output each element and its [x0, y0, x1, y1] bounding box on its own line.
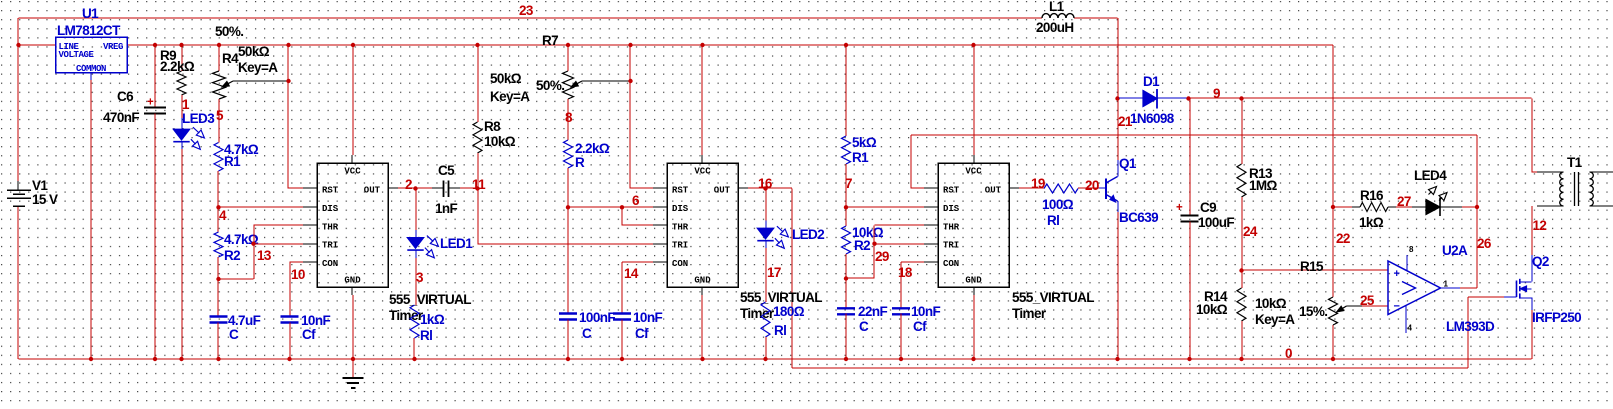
wire net 27 — [1396, 206, 1412, 208]
svg-text:22nF: 22nF — [858, 304, 887, 319]
junction at (1188.5,98.5) — [1186, 96, 1190, 100]
net 3 label — [416, 270, 424, 285]
svg-text:U2A: U2A — [1442, 243, 1468, 258]
svg-text:20: 20 — [1085, 178, 1099, 193]
wire R14 bottom — [1241, 321, 1243, 359]
net 7 label — [845, 176, 852, 191]
svg-text:TRI: TRI — [672, 241, 688, 251]
svg-text:RST: RST — [943, 186, 960, 196]
net 25 label — [1360, 293, 1375, 308]
svg-text:OUT: OUT — [364, 186, 381, 196]
label IRFP250 — [1532, 310, 1581, 325]
svg-text:10nF: 10nF — [633, 310, 662, 325]
label 555_VIRTUAL #2 — [740, 290, 822, 321]
svg-text:2.2kΩ: 2.2kΩ — [575, 141, 610, 156]
junction at (622,359) — [620, 357, 624, 361]
label 50% R4 — [215, 24, 243, 39]
net 16 label — [758, 176, 773, 191]
label U1 — [82, 6, 99, 21]
svg-text:−: − — [1394, 301, 1400, 313]
svg-text:50kΩ: 50kΩ — [238, 44, 270, 59]
junction at (630.5,45) — [628, 43, 632, 47]
svg-text:5: 5 — [216, 108, 224, 123]
svg-text:Timer: Timer — [1012, 306, 1047, 321]
wire R14 top — [1241, 271, 1243, 289]
svg-text:LM7812CT: LM7812CT — [57, 23, 121, 38]
svg-text:VCC: VCC — [694, 167, 711, 177]
resistor R2 4.7kOhm — [214, 232, 259, 263]
op 555 timer box #2 — [653, 155, 750, 295]
junction at (630.5,81) — [628, 79, 632, 83]
svg-text:R: R — [575, 155, 585, 170]
potentiometer R7 50k — [563, 71, 631, 99]
svg-text:TRI: TRI — [322, 241, 338, 251]
svg-text:U1: U1 — [82, 6, 99, 21]
net 19 label — [1031, 176, 1045, 191]
svg-text:100Ω: 100Ω — [1042, 197, 1074, 212]
wire R2 bottom net 13 — [217, 257, 219, 279]
wire bottom rail right riser to Q2 source — [1531, 310, 1533, 359]
svg-text:100uF: 100uF — [1198, 215, 1234, 230]
svg-text:Cf: Cf — [635, 326, 649, 341]
wire net 9 down to T1 — [1531, 99, 1533, 173]
capacitor C 4.7uF — [210, 313, 261, 342]
svg-text:Cf: Cf — [913, 319, 927, 334]
junction at (218.5,359) — [216, 357, 220, 361]
LED2 — [757, 221, 788, 249]
svg-text:10kΩ: 10kΩ — [484, 134, 516, 149]
svg-text:TRI: TRI — [943, 241, 959, 251]
junction at (1477,207) — [1475, 205, 1479, 209]
label LED3 — [182, 111, 215, 126]
capacitor Cf 10nF #2 — [613, 310, 662, 341]
svg-text:180Ω: 180Ω — [773, 304, 805, 319]
net 21 label — [1118, 114, 1133, 129]
svg-text:R15: R15 — [1300, 259, 1324, 274]
wire CON1 route net 10 — [290, 262, 318, 317]
wire +V rail y45 segment to U1 — [19, 44, 56, 46]
svg-text:Rl: Rl — [1047, 213, 1059, 228]
wire Rl to rail — [413, 338, 415, 359]
wire R8 bottom to net 11 — [477, 153, 479, 189]
svg-text:BC639: BC639 — [1119, 210, 1158, 225]
net 26 label — [1477, 236, 1492, 251]
svg-text:4.7uF: 4.7uF — [228, 313, 261, 328]
svg-text:50%.: 50%. — [536, 78, 564, 93]
capacitor C5 1nF — [432, 163, 460, 216]
svg-text:50kΩ: 50kΩ — [490, 71, 522, 86]
wire VCC2 to rail — [701, 45, 703, 155]
svg-text:Cf: Cf — [302, 327, 316, 342]
wire DIS1 horizontal net 4 — [219, 206, 318, 208]
wire net 5 R4 to R1 — [218, 99, 220, 143]
svg-text:15 V: 15 V — [32, 192, 58, 207]
wire C 22nF top — [845, 279, 847, 309]
svg-text:2: 2 — [405, 177, 412, 192]
wire net 9 line — [1189, 97, 1532, 99]
wire top rail net 23 (right segment after L1) — [1074, 17, 1118, 19]
wire top rail net 23 (left segment) — [19, 17, 1043, 19]
svg-text:Rl: Rl — [420, 328, 432, 343]
resistor R2 10kOhm #3 — [842, 225, 884, 254]
wire R9 top — [181, 45, 183, 71]
net 1 label — [182, 97, 190, 112]
net 23 label — [519, 3, 534, 18]
label Q1 — [1119, 156, 1137, 171]
svg-text:9: 9 — [1213, 86, 1220, 101]
svg-text:OUT: OUT — [985, 186, 1002, 196]
net 11 label — [472, 177, 486, 192]
svg-text:200uH: 200uH — [1036, 20, 1074, 35]
svg-text:C: C — [229, 327, 239, 342]
wire gate riser x1468 — [1467, 297, 1469, 368]
svg-text:50%.: 50%. — [215, 24, 243, 39]
svg-text:CON: CON — [943, 259, 959, 269]
svg-text:10kΩ: 10kΩ — [1196, 302, 1228, 317]
label LED1 — [440, 236, 473, 251]
wire DIS2 horizontal net 6 — [568, 206, 667, 208]
svg-text:CON: CON — [322, 259, 338, 269]
svg-text:DIS: DIS — [943, 204, 960, 214]
svg-text:V1: V1 — [32, 178, 48, 193]
junction at (846,45) — [844, 43, 848, 47]
svg-text:L1: L1 — [1049, 0, 1065, 14]
resistor Rl 1kOhm #1 — [410, 305, 445, 343]
wire TRI3 horizontal — [875, 243, 939, 245]
junction at (846,359) — [844, 357, 848, 361]
wire CON2 route net 14 — [622, 262, 667, 314]
svg-text:10: 10 — [291, 267, 305, 282]
svg-text:R7: R7 — [542, 33, 558, 48]
net 20 label — [1085, 178, 1099, 193]
label BC639 — [1119, 210, 1158, 225]
resistor R1 5kOhm — [842, 135, 877, 165]
svg-text:Key=A: Key=A — [238, 60, 278, 75]
wire OUT3 net 19 — [1019, 187, 1044, 189]
wire VCC1 to rail — [352, 45, 354, 155]
svg-text:100nF: 100nF — [579, 310, 615, 325]
label U2A — [1442, 243, 1468, 258]
wire C6 top — [154, 45, 156, 108]
svg-text:LED4: LED4 — [1414, 168, 1447, 183]
wire R8 top — [477, 45, 479, 122]
svg-text:10nF: 10nF — [911, 304, 940, 319]
capacitor Cf 10nF — [281, 313, 331, 342]
wire RST3 route — [911, 135, 1477, 189]
svg-text:555_VIRTUAL: 555_VIRTUAL — [740, 290, 822, 305]
junction at (219,45) — [217, 43, 221, 47]
wire THR2 tie — [622, 207, 667, 225]
wire R13 top — [1241, 99, 1243, 165]
wire R4 wiper riser net to RST — [287, 45, 289, 189]
wire C9 top — [1189, 99, 1191, 216]
junction at (18.5,45) — [16, 43, 20, 47]
net 24 label — [1243, 224, 1258, 239]
svg-text:GND: GND — [965, 276, 982, 286]
svg-text:1kΩ: 1kΩ — [420, 312, 445, 327]
transistor Q2 IRFP250 — [1504, 255, 1532, 310]
junction at (1241.5,98.5) — [1239, 96, 1243, 100]
junction at (568,359) — [566, 357, 570, 361]
junction at (1241.5,270.5) — [1239, 268, 1243, 272]
label R15 — [1300, 259, 1324, 274]
junction at (568,45) — [566, 43, 570, 47]
net 27 label — [1397, 194, 1411, 209]
net 18 label — [898, 265, 913, 280]
junction at (846,207.3) — [844, 205, 848, 209]
net 2 label — [405, 177, 412, 192]
svg-text:4: 4 — [219, 208, 227, 223]
wire RST2 riser — [629, 45, 631, 189]
wire LED2 to Rl2 — [765, 248, 767, 302]
svg-text:23: 23 — [519, 3, 534, 18]
wire C 4.7uF bottom — [217, 323, 219, 360]
wire net 24 horizontal to opamp — [1242, 269, 1389, 271]
wire R15 wiper to opamp minus net 25 — [1362, 305, 1388, 307]
wire lower line y368 net gate — [792, 367, 1468, 369]
svg-text:6: 6 — [632, 193, 640, 208]
junction at (973.5,45) — [971, 43, 975, 47]
wire CON3 route net 18 — [901, 262, 938, 308]
wire C9 bottom — [1189, 222, 1191, 360]
svg-text:+: + — [1176, 202, 1183, 214]
capacitor C6 — [103, 89, 166, 125]
svg-text:10nF: 10nF — [301, 313, 330, 328]
wire C6 bottom — [154, 114, 156, 360]
label R7 values — [490, 71, 564, 104]
wire C 22nF bottom — [845, 314, 847, 360]
wire net22 to R16 — [1333, 206, 1352, 208]
battery V1 — [7, 178, 58, 207]
ground symbol — [343, 378, 364, 388]
junction at (702.5,45) — [700, 43, 704, 47]
svg-text:12: 12 — [1533, 218, 1547, 233]
wire net26 riser x1477 — [1476, 135, 1478, 288]
svg-text:VREG: VREG — [103, 42, 123, 52]
junction at (218.5,207.3) — [216, 205, 220, 209]
label LED4 — [1414, 168, 1447, 183]
svg-text:Q1: Q1 — [1119, 156, 1137, 171]
svg-text:DIS: DIS — [322, 204, 339, 214]
wire left vertical from V1 to bottom rail — [17, 207, 19, 360]
label Q2 — [1532, 254, 1549, 269]
svg-text:29: 29 — [875, 249, 889, 264]
junction at (181.5,359) — [179, 357, 183, 361]
junction at (353,45) — [351, 43, 355, 47]
svg-text:R8: R8 — [484, 119, 501, 134]
svg-text:R2: R2 — [224, 248, 240, 263]
wire T1 top lead — [1532, 171, 1538, 173]
wire C 100nF bottom — [567, 320, 569, 360]
label 555_VIRTUAL #1 — [389, 292, 471, 323]
svg-text:4: 4 — [1408, 324, 1413, 333]
svg-text:C6: C6 — [117, 89, 134, 104]
net 8 label — [565, 110, 573, 125]
wire opamp output net 26 — [1460, 287, 1477, 289]
svg-text:14: 14 — [624, 266, 639, 281]
net 9 label — [1213, 86, 1220, 101]
svg-text:8: 8 — [565, 110, 573, 125]
net 4 label — [219, 208, 227, 223]
svg-text:VOLTAGE: VOLTAGE — [59, 50, 95, 60]
label R7 — [542, 33, 558, 48]
svg-text:17: 17 — [767, 265, 781, 280]
net 6 label — [632, 193, 640, 208]
wire THR1 route net 13 — [219, 225, 318, 279]
wire RST2 horizontal — [631, 187, 668, 189]
svg-text:C9: C9 — [1200, 200, 1216, 215]
svg-text:2.2kΩ: 2.2kΩ — [160, 59, 195, 74]
svg-text:THR: THR — [943, 222, 960, 232]
svg-text:Q2: Q2 — [1532, 254, 1549, 269]
diode D1 1N6098 — [1119, 89, 1189, 109]
label LM393D — [1446, 319, 1495, 334]
LED1 — [407, 230, 438, 258]
capacitor C9 100uF — [1176, 200, 1234, 230]
junction at (901,359) — [899, 357, 903, 361]
wire R15 bottom to bottom rail — [1332, 325, 1334, 359]
svg-text:24: 24 — [1243, 224, 1258, 239]
resistor Rl 100Ohm — [1042, 184, 1078, 228]
label 555_VIRTUAL #3 — [1012, 290, 1094, 321]
svg-text:LM393D: LM393D — [1446, 319, 1495, 334]
junction at (1117.5,359) — [1115, 357, 1119, 361]
capacitor C 100nF — [559, 310, 615, 341]
junction at (874.5,243.7) — [872, 242, 876, 246]
net 5 label — [216, 108, 224, 123]
wire R bottom to C 100nF — [567, 168, 569, 314]
junction at (415.5,188.5) — [413, 186, 417, 190]
junction at (846,278.5) — [844, 276, 848, 280]
label D1 — [1143, 74, 1160, 89]
op 555 timer U2 box #1 — [303, 155, 400, 295]
junction at (973.5,359) — [971, 357, 975, 361]
svg-text:GND: GND — [694, 276, 711, 286]
op 555 timer box #3 — [924, 155, 1021, 295]
svg-text:1kΩ: 1kΩ — [1359, 215, 1384, 230]
svg-text:7: 7 — [845, 176, 852, 191]
junction at (477.5,188.5) — [475, 186, 479, 190]
wire net22 vertical x1333 down to R15 — [1332, 45, 1334, 297]
junction at (414.5,359) — [412, 357, 416, 361]
svg-text:13: 13 — [257, 248, 272, 263]
junction at (353,359) — [351, 357, 355, 361]
svg-text:C: C — [859, 319, 869, 334]
wire OUT1 net 2 — [398, 187, 432, 189]
svg-text:R16: R16 — [1360, 188, 1384, 203]
wire +V rail net 22 from U1 to right corner — [127, 44, 1333, 46]
wire Cf bottom — [289, 323, 291, 360]
junction at (765.5,188.5) — [763, 186, 767, 190]
svg-text:470nF: 470nF — [103, 110, 139, 125]
net 14 label — [624, 266, 639, 281]
wire C 4.7uF top — [217, 279, 219, 317]
svg-text:555_VIRTUAL: 555_VIRTUAL — [1012, 290, 1094, 305]
junction at (218.5,279) — [216, 277, 220, 281]
svg-text:25: 25 — [1360, 293, 1375, 308]
resistor Rl 180Ohm — [761, 302, 805, 338]
svg-text:IRFP250: IRFP250 — [1532, 310, 1581, 325]
junction at (1241.5,359) — [1239, 357, 1243, 361]
svg-text:555_VIRTUAL: 555_VIRTUAL — [389, 292, 471, 307]
wire R4 top — [218, 45, 220, 71]
label 1N6098 — [1130, 111, 1175, 126]
junction at (181.5,45) — [179, 43, 183, 47]
wire C5 right net 11 — [460, 187, 478, 189]
wire bottom rail net 0 — [19, 358, 1532, 360]
svg-text:RST: RST — [322, 186, 339, 196]
svg-text:THR: THR — [322, 222, 339, 232]
junction at (477.5,45) — [475, 43, 479, 47]
svg-text:R1: R1 — [224, 154, 241, 169]
svg-text:1nF: 1nF — [435, 201, 458, 216]
junction at (155,45) — [153, 43, 157, 47]
svg-text:+: + — [1394, 268, 1400, 280]
label LM7812CT — [57, 23, 121, 38]
wire DIS3 horizontal — [846, 206, 938, 208]
wire Cf2 bottom — [621, 320, 623, 360]
svg-text:Rl: Rl — [774, 323, 786, 338]
svg-text:R1: R1 — [852, 150, 869, 165]
wire RST1 horizontal — [289, 187, 318, 189]
junction at (568,207.3) — [566, 205, 570, 209]
wire THR3 TRI3 route net 29 — [846, 225, 938, 279]
wire R2#3 bottom — [845, 254, 847, 279]
svg-text:C: C — [582, 326, 592, 341]
inductor L1 200uH — [1036, 0, 1074, 35]
resistor R16 1kOhm — [1352, 188, 1396, 230]
svg-text:OUT: OUT — [714, 186, 731, 196]
wire U1 COMMON pin to bottom rail — [90, 73, 92, 360]
junction at (1333,359) — [1331, 357, 1335, 361]
svg-text:CON: CON — [672, 259, 688, 269]
regulator U1 LM7812CT box — [56, 37, 128, 74]
LED4 — [1412, 187, 1462, 217]
wire net 8 R7 to R — [567, 99, 569, 140]
junction at (1333,207) — [1331, 205, 1335, 209]
svg-text:26: 26 — [1477, 236, 1492, 251]
wire OUT2 net 16 — [748, 187, 792, 189]
svg-text:Timer: Timer — [389, 308, 424, 323]
resistor R14 10kOhm — [1196, 288, 1246, 321]
wire LED2 top — [765, 189, 767, 221]
wire GND2 to rail — [701, 295, 703, 359]
label R4 — [222, 51, 239, 66]
svg-text:Key=A: Key=A — [1255, 312, 1295, 327]
wire 555 #2 OUT riser x792 — [791, 189, 793, 369]
svg-text:LED2: LED2 — [792, 227, 824, 242]
wire net 20 to Q1 base — [1078, 187, 1099, 189]
svg-text:DIS: DIS — [672, 204, 689, 214]
junction at (288.5,45) — [286, 43, 290, 47]
wire VCC3 to rail — [973, 45, 975, 155]
wire vertical from top rail to D1/Q1 node — [1117, 18, 1119, 99]
wire R1 bottom to R2 top — [217, 171, 219, 232]
svg-text:27: 27 — [1397, 194, 1411, 209]
svg-text:1N6098: 1N6098 — [1130, 111, 1175, 126]
wire Cf3 bottom — [900, 314, 902, 360]
wire R7 top — [567, 45, 569, 71]
svg-text:18: 18 — [898, 265, 913, 280]
svg-text:10kΩ: 10kΩ — [1255, 296, 1287, 311]
wire left vertical from top rail to V1 — [17, 18, 19, 181]
svg-text:T1: T1 — [1567, 155, 1583, 170]
wire LED3 to bottom rail — [181, 149, 183, 359]
junction at (702.5,359) — [700, 357, 704, 361]
svg-text:15%.: 15%. — [1299, 304, 1327, 319]
svg-text:Timer: Timer — [740, 306, 775, 321]
net 17 label — [767, 265, 781, 280]
